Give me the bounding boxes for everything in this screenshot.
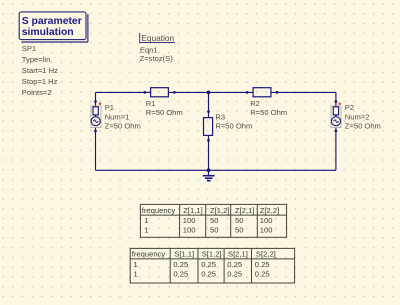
svg-text:Z=stoz(S): Z=stoz(S) [140,54,174,63]
svg-text:Z=50 Ohm: Z=50 Ohm [105,122,141,131]
svg-text:0.25: 0.25 [201,260,216,269]
svg-text:1: 1 [134,260,138,269]
svg-text:0.25: 0.25 [201,269,216,278]
svg-text:R3: R3 [215,112,225,121]
svg-text:S[2,2]: S[2,2] [256,250,276,259]
svg-text:P1: P1 [105,103,114,112]
svg-text:50: 50 [210,216,218,225]
svg-text:simulation: simulation [22,27,74,38]
svg-text:Stop=1 Hz: Stop=1 Hz [22,77,58,86]
svg-text:Num=2: Num=2 [345,112,370,121]
svg-text:S[1,1]: S[1,1] [174,250,194,259]
svg-text:Equation: Equation [141,33,174,43]
svg-text:Num=1: Num=1 [105,112,130,121]
svg-text:frequency: frequency [142,206,176,215]
svg-text:SP1: SP1 [22,44,36,53]
svg-text:S[2,1]: S[2,1] [228,250,248,259]
svg-text:1: 1 [134,269,138,278]
svg-text:1: 1 [144,226,148,235]
svg-text:R1: R1 [146,99,156,108]
svg-text:100: 100 [183,226,196,235]
svg-text:S[1,2]: S[1,2] [202,250,222,259]
svg-text:50: 50 [235,226,243,235]
svg-text:0.25: 0.25 [255,260,270,269]
svg-text:Z[2,1]: Z[2,1] [235,206,254,215]
svg-text:Z[1,1]: Z[1,1] [183,206,202,215]
svg-text:100: 100 [260,226,273,235]
svg-text:R=50 Ohm: R=50 Ohm [215,121,252,130]
svg-text:S parameter: S parameter [22,16,82,27]
svg-text:R2: R2 [250,99,260,108]
svg-text:Start=1 Hz: Start=1 Hz [22,66,58,75]
svg-text:P2: P2 [345,103,354,112]
svg-text:0.25: 0.25 [173,269,188,278]
svg-text:0.25: 0.25 [227,269,242,278]
svg-text:Z[2,2]: Z[2,2] [260,206,279,215]
svg-text:Eqn1: Eqn1 [140,45,158,54]
svg-text:Z[1,2]: Z[1,2] [210,206,229,215]
svg-text:Z=50 Ohm: Z=50 Ohm [345,122,381,131]
svg-text:frequency: frequency [132,250,166,259]
svg-text:0.25: 0.25 [227,260,242,269]
svg-text:Points=2: Points=2 [22,88,52,97]
svg-text:R=50 Ohm: R=50 Ohm [146,108,183,117]
svg-text:50: 50 [235,216,243,225]
svg-text:100: 100 [260,216,273,225]
svg-text:1: 1 [144,216,148,225]
svg-text:R=50 Ohm: R=50 Ohm [250,108,287,117]
svg-text:0.25: 0.25 [255,269,270,278]
svg-text:0.25: 0.25 [173,260,188,269]
svg-text:50: 50 [210,226,218,235]
svg-text:100: 100 [183,216,196,225]
svg-text:Type=lin: Type=lin [22,55,51,64]
